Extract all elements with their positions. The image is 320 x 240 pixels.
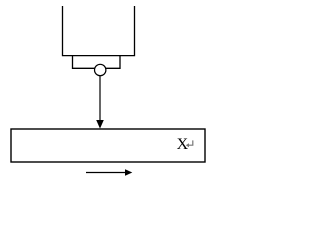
down arrow shaft — [99, 76, 101, 121]
right arrow head — [125, 169, 132, 176]
paragraph return mark — [188, 140, 193, 145]
stylus ball — [95, 64, 106, 75]
down arrow head — [96, 120, 104, 129]
right arrow shaft — [86, 172, 126, 174]
spindle housing — [63, 6, 135, 56]
tool holder block — [73, 56, 121, 69]
workpiece rectangle — [11, 129, 205, 162]
return mark arrowhead — [186, 143, 189, 147]
svg-text:X: X — [177, 136, 189, 153]
